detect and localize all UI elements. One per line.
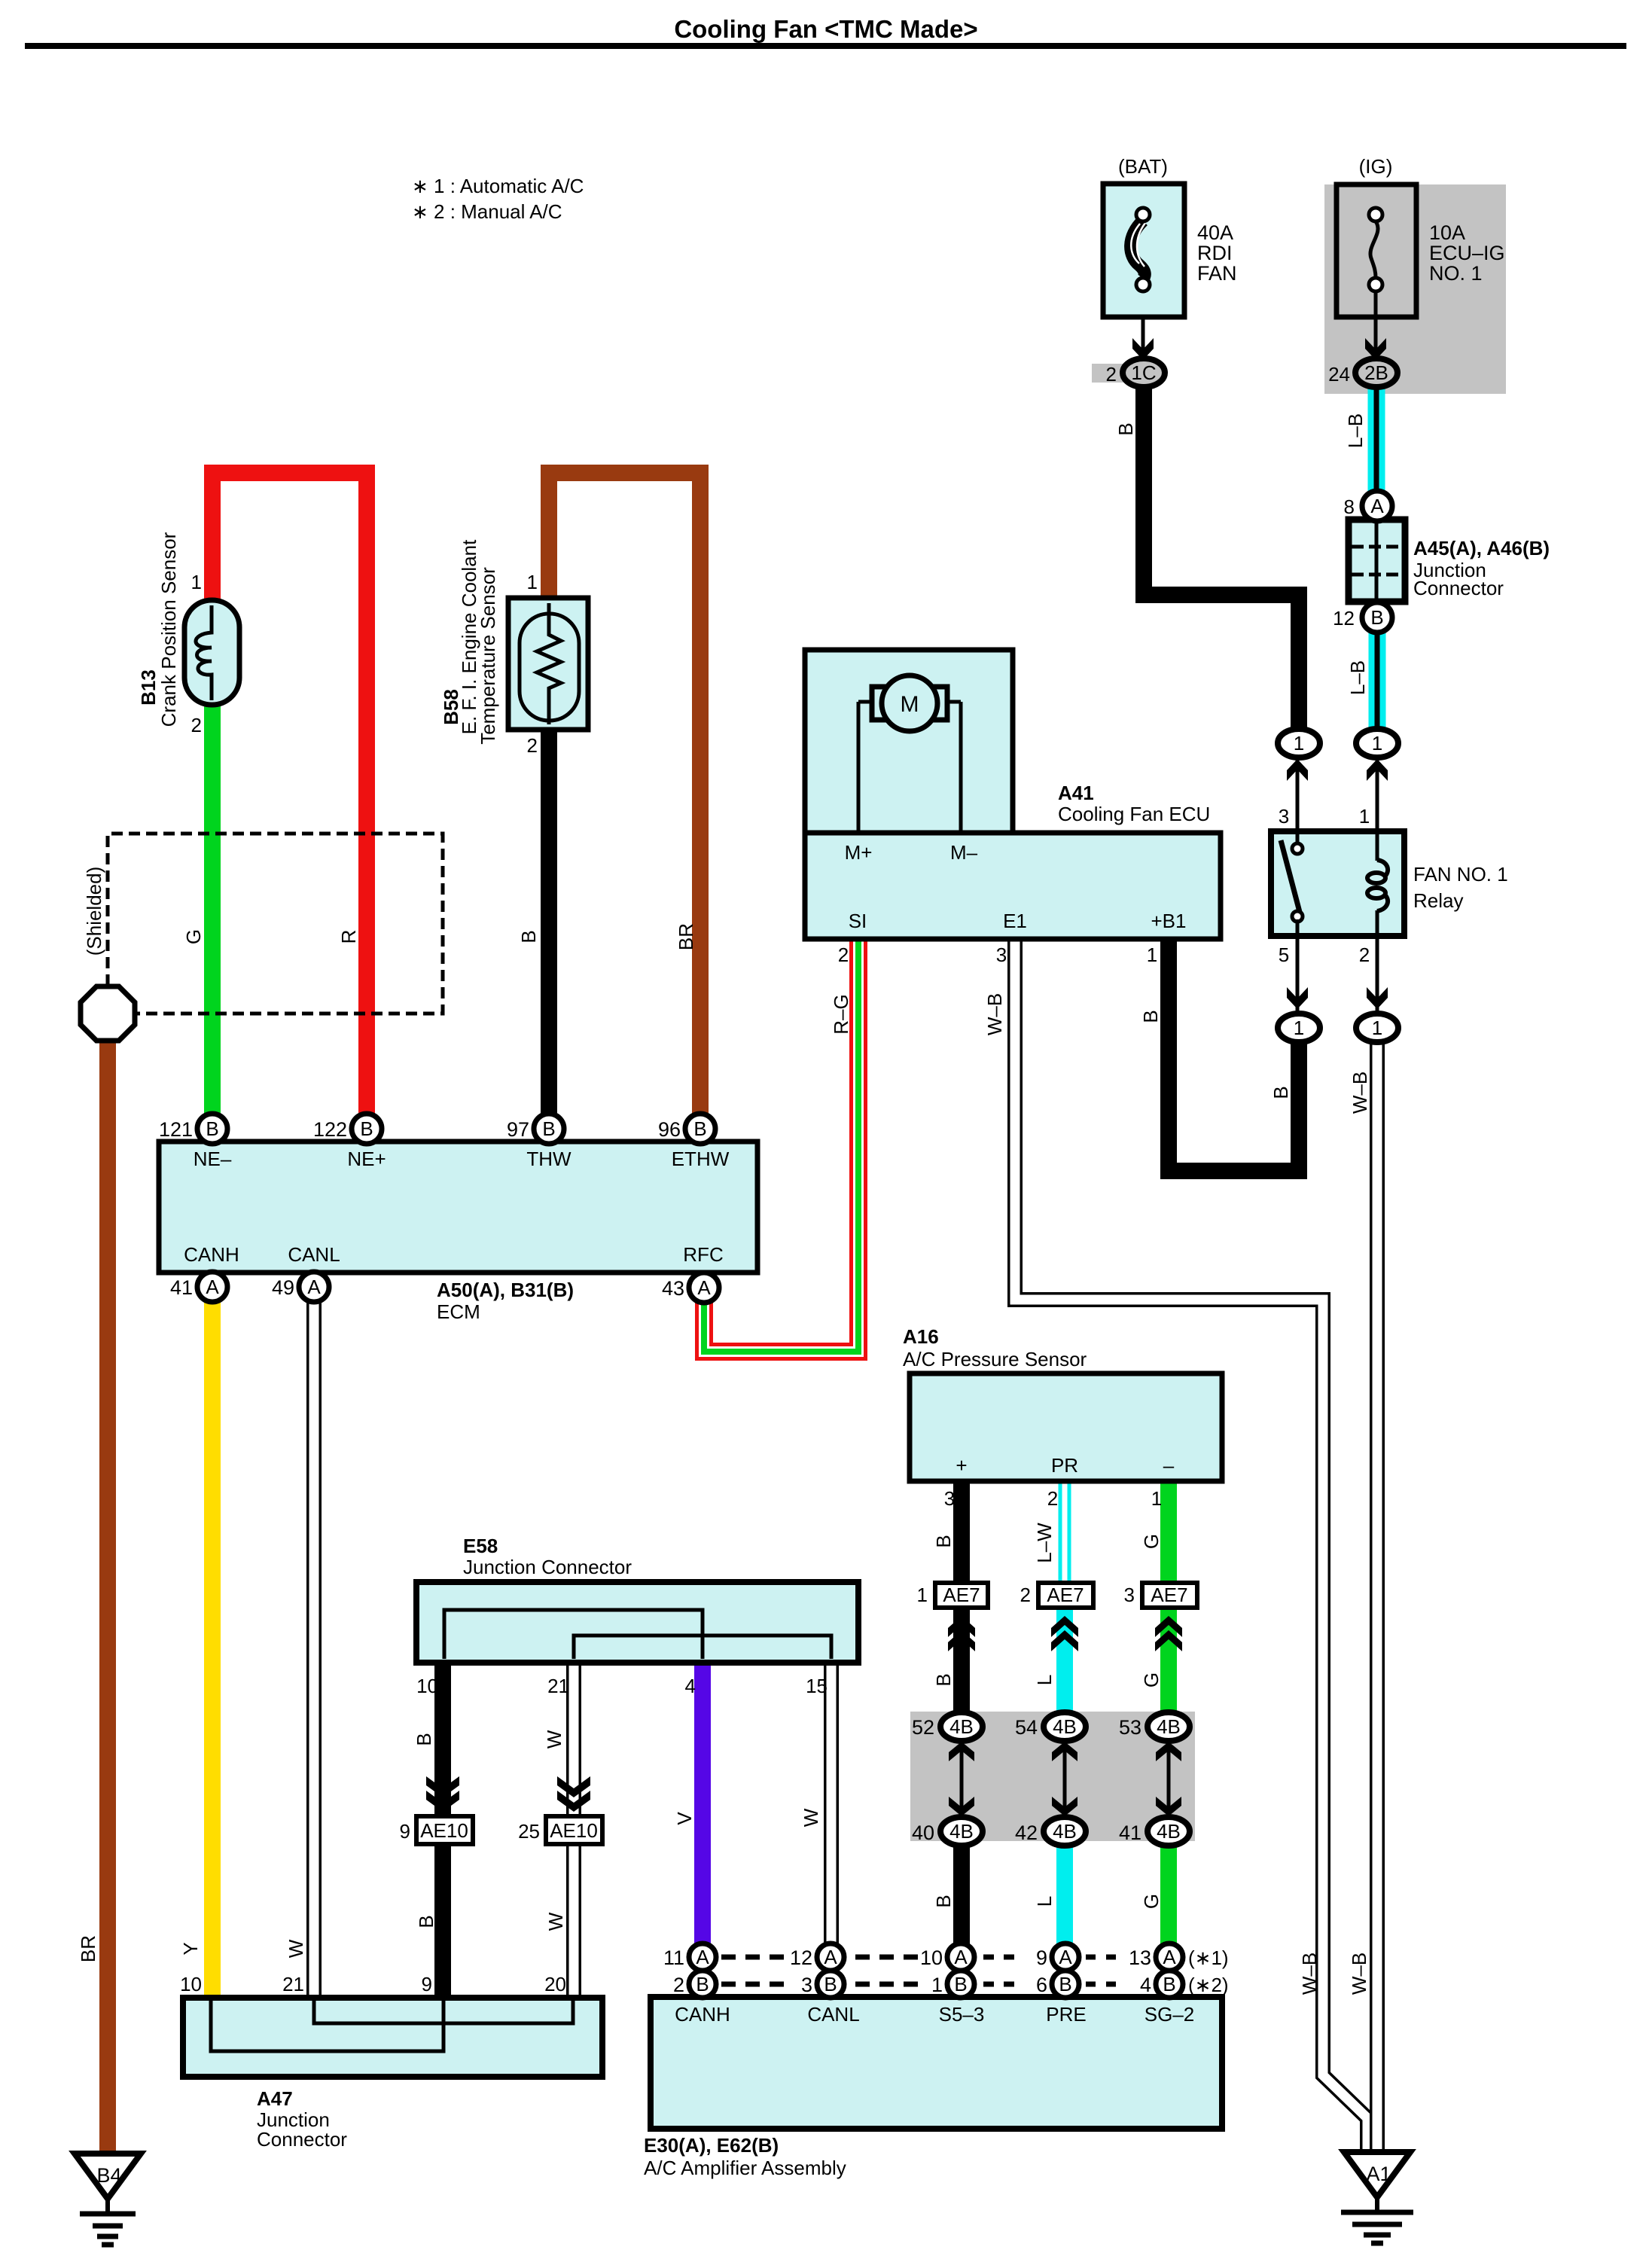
svg-text:CANH: CANH xyxy=(675,2003,730,2026)
svg-text:21: 21 xyxy=(282,1973,304,1995)
svg-text:+B1: +B1 xyxy=(1151,910,1187,932)
svg-text:97: 97 xyxy=(507,1118,529,1141)
svg-text:4B: 4B xyxy=(949,1820,974,1843)
svg-text:A45(A), A46(B): A45(A), A46(B) xyxy=(1413,537,1550,559)
svg-text:W: W xyxy=(543,1730,565,1748)
svg-text:9: 9 xyxy=(422,1973,432,1995)
svg-text:B4: B4 xyxy=(96,2164,121,2187)
svg-text:2: 2 xyxy=(1047,1487,1058,1510)
svg-text:SI: SI xyxy=(849,910,867,932)
svg-text:G: G xyxy=(1140,1534,1163,1549)
svg-text:41: 41 xyxy=(1119,1822,1141,1844)
svg-text:NE–: NE– xyxy=(194,1148,232,1170)
svg-text:4B: 4B xyxy=(1053,1820,1077,1843)
svg-text:B: B xyxy=(1059,1973,1071,1995)
svg-text:10: 10 xyxy=(180,1973,202,1995)
svg-text:R–G: R–G xyxy=(830,994,852,1034)
svg-text:W–B: W–B xyxy=(1349,1072,1371,1114)
svg-text:49: 49 xyxy=(272,1276,294,1299)
svg-text:B: B xyxy=(1370,606,1383,629)
svg-text:AE10: AE10 xyxy=(420,1819,468,1842)
svg-text:AE7: AE7 xyxy=(943,1584,980,1606)
svg-text:Crank Position Sensor: Crank Position Sensor xyxy=(157,532,180,727)
svg-text:–: – xyxy=(1163,1454,1175,1477)
svg-text:Relay: Relay xyxy=(1413,889,1463,912)
svg-text:2: 2 xyxy=(191,714,202,736)
svg-text:R: R xyxy=(337,930,360,944)
svg-text:S5–3: S5–3 xyxy=(939,2003,985,2026)
svg-text:B: B xyxy=(206,1117,218,1140)
svg-text:40: 40 xyxy=(912,1822,934,1844)
svg-text:1C: 1C xyxy=(1131,361,1156,384)
svg-text:E30(A), E62(B): E30(A), E62(B) xyxy=(644,2134,779,2157)
svg-text:4: 4 xyxy=(1140,1974,1151,1996)
svg-text:2: 2 xyxy=(673,1974,684,1996)
svg-text:B13: B13 xyxy=(137,669,160,706)
svg-text:3: 3 xyxy=(1279,805,1289,828)
svg-text:PRE: PRE xyxy=(1046,2003,1086,2026)
svg-text:B: B xyxy=(1269,1086,1292,1099)
svg-text:V: V xyxy=(673,1812,696,1825)
svg-text:A/C Pressure Sensor: A/C Pressure Sensor xyxy=(903,1348,1087,1370)
svg-text:SG–2: SG–2 xyxy=(1145,2003,1195,2026)
svg-text:B: B xyxy=(932,1673,955,1686)
svg-text:NO. 1: NO. 1 xyxy=(1429,262,1483,285)
svg-text:AE7: AE7 xyxy=(1047,1584,1084,1606)
svg-text:AE10: AE10 xyxy=(550,1819,598,1842)
svg-text:52: 52 xyxy=(912,1716,934,1739)
svg-text:A50(A), B31(B): A50(A), B31(B) xyxy=(437,1279,574,1301)
svg-text:1: 1 xyxy=(1294,732,1304,755)
svg-text:B: B xyxy=(415,1915,437,1928)
svg-text:A1: A1 xyxy=(1366,2163,1391,2185)
svg-text:1: 1 xyxy=(1147,944,1157,966)
svg-text:Connector: Connector xyxy=(257,2128,347,2151)
svg-text:96: 96 xyxy=(658,1118,681,1141)
svg-text:43: 43 xyxy=(662,1277,684,1300)
svg-text:AE7: AE7 xyxy=(1151,1584,1187,1606)
svg-text:RFC: RFC xyxy=(683,1243,723,1266)
svg-text:Y: Y xyxy=(179,1942,202,1955)
svg-text:PR: PR xyxy=(1051,1454,1078,1477)
svg-text:RDI: RDI xyxy=(1197,242,1233,264)
svg-text:W–B: W–B xyxy=(1348,1953,1370,1995)
svg-text:10: 10 xyxy=(920,1947,943,1969)
svg-text:M–: M– xyxy=(950,841,978,864)
svg-text:1: 1 xyxy=(917,1584,928,1606)
svg-text:B: B xyxy=(1114,422,1137,435)
svg-text:4: 4 xyxy=(685,1675,696,1697)
svg-text:B: B xyxy=(693,1117,706,1140)
svg-text:1: 1 xyxy=(191,571,202,593)
svg-text:L: L xyxy=(1033,1896,1056,1907)
svg-text:A: A xyxy=(697,1276,711,1299)
svg-text:42: 42 xyxy=(1015,1822,1038,1844)
svg-text:B: B xyxy=(954,1973,967,1995)
svg-text:53: 53 xyxy=(1119,1716,1141,1739)
svg-text:W–B: W–B xyxy=(1298,1953,1321,1995)
svg-text:Junction Connector: Junction Connector xyxy=(463,1556,632,1578)
svg-text:G: G xyxy=(182,929,205,944)
svg-text:1: 1 xyxy=(1359,805,1370,828)
svg-text:∗ 1 : Automatic A/C: ∗ 1 : Automatic A/C xyxy=(412,175,584,197)
svg-text:A: A xyxy=(954,1946,968,1968)
svg-text:1: 1 xyxy=(1151,1487,1162,1510)
svg-text:B: B xyxy=(696,1973,709,1995)
svg-text:B: B xyxy=(542,1117,555,1140)
svg-text:2: 2 xyxy=(838,944,849,966)
svg-text:G: G xyxy=(1140,1894,1163,1909)
svg-text:ECM: ECM xyxy=(437,1300,480,1323)
svg-text:20: 20 xyxy=(544,1973,566,1995)
svg-text:CANH: CANH xyxy=(184,1243,239,1266)
svg-text:(IG): (IG) xyxy=(1359,155,1393,178)
svg-text:(∗2): (∗2) xyxy=(1188,1974,1229,1996)
svg-text:CANL: CANL xyxy=(288,1243,340,1266)
svg-text:1: 1 xyxy=(1372,1017,1382,1039)
svg-text:(∗1): (∗1) xyxy=(1188,1947,1229,1969)
svg-text:A: A xyxy=(696,1946,709,1968)
svg-text:12: 12 xyxy=(1333,607,1355,630)
svg-text:A: A xyxy=(206,1276,219,1298)
svg-text:A: A xyxy=(1059,1946,1072,1968)
svg-text:A16: A16 xyxy=(903,1325,939,1348)
svg-text:B: B xyxy=(932,1535,955,1547)
svg-text:B: B xyxy=(517,930,540,943)
svg-text:122: 122 xyxy=(313,1118,347,1141)
svg-text:B: B xyxy=(360,1117,373,1140)
svg-text:Cooling Fan ECU: Cooling Fan ECU xyxy=(1058,803,1210,825)
svg-text:L–W: L–W xyxy=(1033,1523,1056,1563)
svg-text:G: G xyxy=(1140,1672,1163,1687)
svg-text:121: 121 xyxy=(159,1118,193,1141)
svg-text:4B: 4B xyxy=(949,1715,974,1738)
svg-text:B: B xyxy=(1139,1010,1162,1023)
svg-text:40A: 40A xyxy=(1197,221,1233,244)
svg-text:1: 1 xyxy=(1294,1017,1304,1039)
svg-text:∗ 2 : Manual A/C: ∗ 2 : Manual A/C xyxy=(412,200,562,223)
svg-text:BR: BR xyxy=(77,1935,99,1962)
svg-text:W: W xyxy=(285,1939,307,1958)
svg-text:13: 13 xyxy=(1129,1947,1151,1969)
svg-text:A: A xyxy=(307,1276,321,1298)
svg-text:25: 25 xyxy=(518,1820,540,1843)
svg-text:4B: 4B xyxy=(1053,1715,1077,1738)
svg-text:W: W xyxy=(544,1912,567,1931)
svg-text:5: 5 xyxy=(1279,944,1289,966)
svg-text:9: 9 xyxy=(400,1820,410,1843)
svg-text:L: L xyxy=(1033,1675,1056,1685)
svg-text:(Shielded): (Shielded) xyxy=(83,867,105,956)
svg-text:A: A xyxy=(1163,1946,1176,1968)
svg-text:41: 41 xyxy=(170,1276,193,1299)
svg-text:(BAT): (BAT) xyxy=(1118,155,1168,178)
svg-text:54: 54 xyxy=(1015,1716,1038,1739)
svg-text:4B: 4B xyxy=(1157,1820,1181,1843)
svg-text:Connector: Connector xyxy=(1413,577,1504,599)
svg-text:Temperature Sensor: Temperature Sensor xyxy=(477,567,499,745)
svg-text:8: 8 xyxy=(1344,495,1355,518)
svg-text:W: W xyxy=(800,1808,822,1827)
svg-text:B: B xyxy=(932,1895,955,1907)
svg-text:ECU–IG: ECU–IG xyxy=(1429,242,1505,264)
svg-text:A41: A41 xyxy=(1058,782,1094,804)
svg-text:12: 12 xyxy=(790,1947,812,1969)
svg-text:1: 1 xyxy=(527,571,538,593)
svg-text:B: B xyxy=(824,1973,837,1995)
svg-text:M: M xyxy=(901,692,919,717)
svg-text:+: + xyxy=(956,1454,967,1477)
svg-text:M+: M+ xyxy=(845,841,873,864)
svg-text:A47: A47 xyxy=(257,2087,293,2110)
svg-text:21: 21 xyxy=(547,1675,569,1697)
svg-text:2B: 2B xyxy=(1364,361,1388,384)
svg-text:2: 2 xyxy=(1106,363,1117,386)
svg-text:W–B: W–B xyxy=(983,993,1006,1035)
svg-text:6: 6 xyxy=(1036,1974,1047,1996)
svg-text:3: 3 xyxy=(996,944,1007,966)
svg-text:FAN: FAN xyxy=(1197,262,1237,285)
svg-text:10A: 10A xyxy=(1429,221,1465,244)
svg-text:B: B xyxy=(1163,1973,1175,1995)
svg-text:CANL: CANL xyxy=(807,2003,859,2026)
svg-text:10: 10 xyxy=(416,1675,438,1697)
svg-text:A: A xyxy=(824,1946,837,1968)
svg-text:NE+: NE+ xyxy=(347,1148,386,1170)
svg-text:3: 3 xyxy=(801,1974,812,1996)
svg-text:L–B: L–B xyxy=(1346,660,1369,695)
svg-text:E1: E1 xyxy=(1003,910,1027,932)
svg-text:B: B xyxy=(413,1733,435,1745)
svg-text:9: 9 xyxy=(1036,1947,1047,1969)
svg-text:24: 24 xyxy=(1328,363,1350,386)
svg-text:2: 2 xyxy=(1359,944,1370,966)
svg-text:Cooling Fan <TMC Made>: Cooling Fan <TMC Made> xyxy=(674,15,977,43)
svg-text:FAN NO. 1: FAN NO. 1 xyxy=(1413,863,1508,886)
svg-text:ETHW: ETHW xyxy=(672,1148,730,1170)
svg-text:A/C Amplifier Assembly: A/C Amplifier Assembly xyxy=(644,2157,846,2179)
svg-text:THW: THW xyxy=(526,1148,571,1170)
svg-text:1: 1 xyxy=(931,1974,943,1996)
svg-text:2: 2 xyxy=(527,734,538,757)
svg-text:2: 2 xyxy=(1020,1584,1031,1606)
svg-text:3: 3 xyxy=(944,1487,955,1510)
svg-text:3: 3 xyxy=(1124,1584,1135,1606)
svg-text:1: 1 xyxy=(1372,732,1382,755)
svg-text:L–B: L–B xyxy=(1344,413,1367,448)
svg-text:4B: 4B xyxy=(1157,1715,1181,1738)
svg-text:E58: E58 xyxy=(463,1535,498,1557)
svg-text:BR: BR xyxy=(675,923,697,950)
svg-text:A: A xyxy=(1370,495,1384,517)
svg-text:11: 11 xyxy=(663,1947,684,1969)
svg-text:15: 15 xyxy=(806,1675,828,1697)
